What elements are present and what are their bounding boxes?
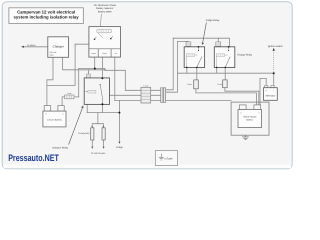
svg-text:Isolation Relay: Isolation Relay [52, 147, 68, 150]
node ignition junction [273, 72, 275, 74]
svg-text:Lights: Lights [91, 52, 96, 55]
wire charger bottom right to bus L2 [63, 57, 106, 70]
svg-text:7 core: 7 core [143, 85, 148, 88]
wire isolation relay bottom left [86, 104, 88, 112]
svg-text:Battery Selector/: Battery Selector/ [96, 7, 113, 10]
wire panel cell1 down [94, 57, 96, 68]
wire relay2 pin 86 [216, 68, 218, 74]
selector pointer [98, 33, 103, 38]
7 core connector block [141, 85, 151, 103]
fuse above relay2 [216, 42, 221, 46]
wire alternator left stub [260, 78, 266, 104]
svg-text:Battery: Battery [246, 118, 254, 121]
wire bus L1 [79, 68, 126, 90]
wire inline fuse drop to relay top [87, 70, 89, 78]
svg-text:Pressauto.NET: Pressauto.NET [8, 152, 59, 163]
svg-text:input: input [50, 53, 55, 56]
svg-text:Leisure Battery: Leisure Battery [47, 118, 63, 121]
svg-text:Vehicle Starter: Vehicle Starter [243, 115, 257, 118]
svg-text:Fridge: Fridge [102, 52, 107, 55]
wire relay output horizontal [87, 112, 119, 114]
node junction bus L1 / panel cell1 [94, 68, 96, 70]
wire panel to battery sense [47, 44, 75, 85]
dashed ignition wire [273, 50, 275, 73]
vehicle starter battery B2 [238, 105, 262, 128]
svg-text:Charger: Charger [53, 45, 64, 49]
wire fridge feed [118, 100, 120, 141]
vehicle battery enclosure [231, 102, 269, 135]
svg-text:Ignition switch: Ignition switch [268, 45, 284, 48]
svg-text:system including isolation rel: system including isolation relay [13, 14, 79, 19]
wire panel cell2 to isolation relay top [101, 57, 103, 78]
wire fuse2 to vehicle battery [225, 88, 259, 105]
leisure battery B1 [43, 106, 66, 127]
wire panel left contact out [75, 39, 94, 44]
legend box earth [155, 151, 177, 166]
ground below vehicle battery [242, 135, 249, 140]
relay K2 fridge relay [184, 46, 204, 68]
wire leisure fuse left [62, 97, 65, 106]
plug-socket bars [161, 88, 163, 103]
wire charger to mains [22, 46, 48, 48]
inline fuse above isolation relay [87, 74, 91, 78]
wire fuse pair outputs [92, 140, 103, 147]
wire fuse riser [78, 68, 80, 97]
wire charger bottom left to leisure battery + [47, 57, 53, 105]
frame background [0, 0, 295, 171]
relay K3 charge relay [214, 46, 235, 68]
svg-text:Charge Relay: Charge Relay [237, 53, 252, 56]
wire top feed P [173, 38, 229, 47]
wire fuse drop relay2 [217, 38, 219, 47]
svg-text:Fridge: Fridge [116, 146, 123, 149]
svg-text:Fuse(each): Fuse(each) [78, 132, 89, 135]
svg-text:= Earth: = Earth [164, 158, 173, 161]
svg-text:Battery Meter: Battery Meter [98, 10, 112, 13]
wire panel right contact [105, 39, 111, 49]
wire isolation relay bottom right [101, 104, 103, 112]
node left contact [94, 38, 96, 40]
fuse pair 12v circuits [78, 126, 106, 155]
alternator G1 [264, 85, 278, 100]
wire top feed Q [177, 40, 188, 43]
battery meter [97, 29, 112, 32]
svg-text:Alternator: Alternator [265, 95, 275, 98]
svg-text:Fuse: Fuse [67, 92, 71, 95]
charger U1 [48, 37, 69, 58]
isolation relay K1 [84, 77, 109, 105]
wire leisure fuse right [74, 96, 79, 98]
fuse leisure battery [65, 92, 74, 99]
distribution panel box [89, 27, 121, 57]
wire relay1 pin 30 to fuse1 [196, 68, 198, 80]
svg-text:12v Distribution Panel: 12v Distribution Panel [94, 4, 117, 7]
wire drop to fuse pair [92, 113, 103, 127]
wire run3 [115, 99, 231, 101]
fuse F2 below relay2 [218, 80, 228, 88]
fuse above relay1 [186, 42, 191, 46]
wire title pointer [100, 14, 101, 26]
node right contact [110, 38, 112, 40]
wire bus ignition [177, 72, 273, 74]
wire fuse1 to vehicle battery [196, 89, 257, 105]
svg-text:Aux: Aux [114, 52, 117, 55]
wire run1 [125, 38, 173, 90]
svg-text:To Mains: To Mains [27, 44, 37, 47]
wire ignition to alternator [273, 73, 275, 85]
svg-text:12 Volt Circuits: 12 Volt Circuits [91, 152, 106, 155]
wire fuse to relay1 top [187, 45, 189, 48]
wire run2 [110, 41, 178, 95]
fuse F1 below relay1 [187, 80, 198, 89]
svg-text:Fridge Relay: Fridge Relay [206, 19, 220, 22]
title box [9, 8, 84, 24]
fridge arrow + label [118, 142, 120, 144]
node junction relay output / fridge feed [118, 112, 120, 114]
wire panel cell3 to run3 [114, 57, 116, 100]
label distribution panel [94, 4, 117, 13]
wire relay1 pin 86 [186, 68, 188, 74]
wire relay2 pin 30 to fuse2 [224, 68, 226, 80]
panel cells [89, 49, 121, 57]
